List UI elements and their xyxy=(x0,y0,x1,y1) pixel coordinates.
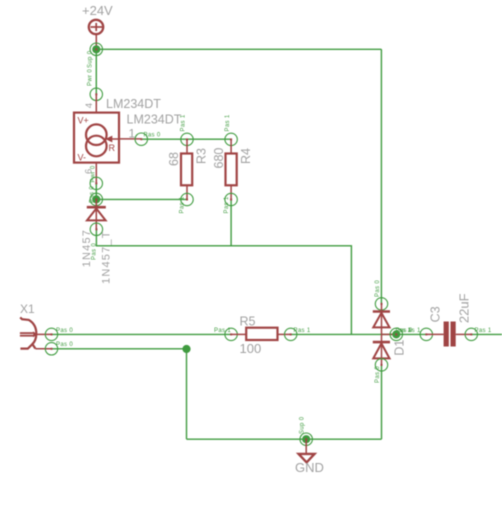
svg-text:100: 100 xyxy=(240,341,262,356)
wire X1 sleeve to node C xyxy=(52,348,187,350)
ground symbol GND xyxy=(299,439,315,462)
D1 mid pin stub xyxy=(381,333,396,335)
svg-text:LM234DT: LM234DT xyxy=(127,113,182,127)
pin circle R4 bottom xyxy=(225,193,237,205)
svg-text:Pas 0: Pas 0 xyxy=(56,342,73,348)
svg-text:X1: X1 xyxy=(20,302,35,316)
svg-text:680: 680 xyxy=(212,148,226,169)
svg-text:Pas 1: Pas 1 xyxy=(224,196,230,213)
svg-text:Pas 0: Pas 0 xyxy=(375,366,381,383)
resistor R4 xyxy=(226,139,237,199)
svg-text:Pas 0: Pas 0 xyxy=(56,328,73,334)
svg-text:Pas 0: Pas 0 xyxy=(375,280,381,297)
svg-text:LM234DT: LM234DT xyxy=(106,97,161,111)
node E junction GND xyxy=(300,433,312,445)
wire pin6 to node B xyxy=(95,183,97,199)
svg-text:R3: R3 xyxy=(195,148,209,164)
svg-text:GND: GND xyxy=(295,460,324,475)
svg-text:R4: R4 xyxy=(239,148,253,164)
svg-text:D1: D1 xyxy=(392,340,406,356)
svg-text:1N457_T: 1N457_T xyxy=(100,230,112,284)
pin circle D2 bottom xyxy=(90,223,102,235)
wire node C down to ground rail xyxy=(186,349,188,439)
svg-text:as 1: as 1 xyxy=(408,328,421,334)
svg-text:1: 1 xyxy=(129,127,136,141)
wire X1 tip to R5 xyxy=(52,333,232,335)
X1 pin 2 stub xyxy=(35,348,51,350)
svg-text:Pas 0: Pas 0 xyxy=(144,132,161,138)
wire D1 mid to C3 xyxy=(396,333,426,335)
svg-text:V+: V+ xyxy=(78,116,89,126)
svg-text:Sup 0: Sup 0 xyxy=(300,416,306,434)
pin circle R5 right xyxy=(285,328,297,340)
pin 4 wire stub xyxy=(95,94,97,112)
diode D2 1N457 xyxy=(87,199,106,229)
node VIN junction at +24V xyxy=(90,43,102,55)
node B junction above D2 xyxy=(90,193,102,205)
pin circle C3 left xyxy=(420,328,432,340)
pin circle D1 top xyxy=(375,298,387,310)
pin circle X1 sleeve xyxy=(45,343,57,355)
svg-text:22uF: 22uF xyxy=(457,293,472,323)
svg-text:4: 4 xyxy=(84,103,95,108)
wire D1 bottom to ground rail xyxy=(381,365,383,439)
pin circle U1 pin 1 xyxy=(135,133,147,145)
wire R5 to D1 mid xyxy=(291,333,397,335)
wire node B to R3 bottom xyxy=(96,198,187,200)
svg-text:R5: R5 xyxy=(240,315,256,329)
pin text Sup 0 / Pwr 0 xyxy=(88,50,94,86)
wire +24V down to U1 pin 4 xyxy=(95,49,97,94)
pin circle U1 pin 6 xyxy=(90,177,102,189)
IC U1 LM234DT body xyxy=(74,113,119,163)
svg-text:Pas 1: Pas 1 xyxy=(475,328,492,334)
pin 6 wire stub xyxy=(95,163,97,184)
ground rail wire xyxy=(187,438,382,440)
pin circle R3 top xyxy=(181,133,193,145)
svg-text:C3: C3 xyxy=(429,306,443,322)
svg-text:Sup 0: Sup 0 xyxy=(88,50,94,68)
pin circle D1 bottom xyxy=(375,359,387,371)
pin circle R4 top xyxy=(225,133,237,145)
wire R4 bottom down xyxy=(230,200,232,246)
svg-text:R: R xyxy=(109,143,116,153)
node C junction xyxy=(182,345,190,353)
resistor R5 xyxy=(231,328,291,340)
wire +24V top rail horizontal xyxy=(96,48,381,50)
svg-text:Pas 1: Pas 1 xyxy=(294,328,311,334)
supply symbol +24V xyxy=(89,20,103,50)
svg-text:V-: V- xyxy=(78,153,87,163)
svg-text:Pwr 0: Pwr 0 xyxy=(88,69,94,86)
svg-text:Pas 1: Pas 1 xyxy=(181,114,187,131)
pin circle C3 right xyxy=(465,328,477,340)
pin circle X1 tip xyxy=(45,328,57,340)
svg-text:Pas 1: Pas 1 xyxy=(225,114,231,131)
wire D2 bottom to mid rail xyxy=(96,229,351,334)
diode D1 lower xyxy=(373,334,390,365)
node D junction D1 mid xyxy=(390,328,402,340)
wire +24V rail down to D1 top xyxy=(380,49,382,304)
wire U1 pin1 to R3 R4 tops xyxy=(141,138,231,140)
pin circle U1 pin 4 xyxy=(90,88,102,100)
connector X1 jack symbol xyxy=(20,317,36,348)
X1 pin 1 stub xyxy=(35,333,51,335)
svg-text:68: 68 xyxy=(167,152,181,166)
pin circle R3 bottom xyxy=(181,193,193,205)
resistor R3 xyxy=(181,139,192,199)
svg-text:Pwr 0: Pwr 0 xyxy=(91,165,97,182)
C3 pin stubs xyxy=(426,333,471,335)
svg-text:+24V: +24V xyxy=(82,3,113,18)
pin endpoint dots xyxy=(51,48,473,440)
wire C3 right to edge xyxy=(471,333,502,335)
U1 adjust arrow xyxy=(105,136,119,143)
pin circle R5 left xyxy=(225,328,237,340)
capacitor C3 xyxy=(444,322,456,347)
pin 1 wire stub xyxy=(119,138,141,140)
diode D1 upper xyxy=(373,304,390,335)
